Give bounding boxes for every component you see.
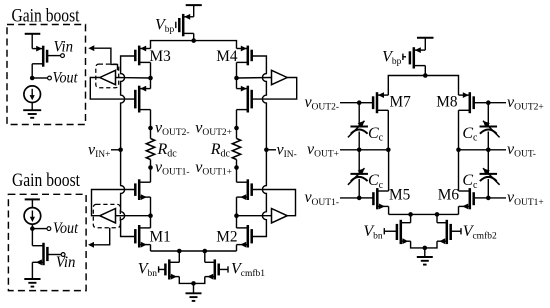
label Vbp (stage 2) xyxy=(403,56,406,58)
label vOUT+ xyxy=(340,149,359,151)
wire cap to vOUT1- node xyxy=(358,179,360,198)
wire cap column upper left xyxy=(358,103,360,127)
ground (bottom box) xyxy=(24,278,40,280)
label vOUT- xyxy=(488,149,506,151)
node tail left (stage 2) xyxy=(408,212,413,217)
ground (top box) xyxy=(23,109,41,111)
node vOUT1- (stage1) xyxy=(148,165,153,170)
wire cap column lower left xyxy=(358,150,360,174)
wire A3 input from node C xyxy=(116,215,151,217)
wire cap to vOUT- node xyxy=(487,132,489,150)
label Vbp (stage 1) xyxy=(174,24,176,26)
node tail right (stage 1) xyxy=(203,249,208,254)
wire current source to Vout node (bottom box) xyxy=(31,224,33,228)
wire VDD rail (stage 1) xyxy=(151,41,237,49)
wire cascode PMOS drain to vOUT2- node xyxy=(150,110,152,128)
transistor tail NMOS Vbn (stage 2) xyxy=(400,220,403,244)
wire source to ground (bottom box) xyxy=(31,262,33,279)
transistor M1 xyxy=(138,225,141,248)
node tail left (stage 1) xyxy=(177,249,182,254)
wire cascode source to node D xyxy=(236,197,238,216)
svg-text:M7: M7 xyxy=(390,94,412,111)
dashed box Gain boost (bottom) xyxy=(8,194,86,290)
wire M1 drain to node C xyxy=(150,216,152,228)
wire Vout node to NMOS drain (bottom box) xyxy=(31,229,33,246)
wire Vbn drain (stage 2) xyxy=(410,214,412,222)
transistor M5 xyxy=(376,188,379,209)
wire vOUT- node to output column xyxy=(459,149,489,151)
wire cascode drain to vOUT1+ node xyxy=(236,168,238,183)
wire M5 drain up to vOUT+ column xyxy=(388,150,390,191)
terminal Vin (top box) xyxy=(47,55,61,57)
node Vout (bottom box) xyxy=(30,226,35,231)
wire Vcmfb1 source to ground node xyxy=(194,277,205,284)
wire M7 drain down to vOUT+ column xyxy=(387,110,389,150)
node D (cascode source / M2 drain) xyxy=(234,213,239,218)
wire vOUT+ node to output column xyxy=(359,149,388,151)
transistor tail NMOS Vcmfb1 xyxy=(214,259,217,279)
node rail center (stage 1) xyxy=(191,38,196,43)
transistor M6 xyxy=(469,188,472,209)
wire VDD rail (stage 2) xyxy=(388,76,458,96)
wire M4 drain to node B xyxy=(236,62,238,78)
label vIN+ xyxy=(111,149,121,151)
label Vcmfb2 xyxy=(451,230,461,232)
terminal Vin (bottom box) xyxy=(47,254,61,256)
wire Vbp drain to rail (stage 2) xyxy=(424,66,426,76)
transistor cascode NMOS left xyxy=(138,179,141,200)
label vIN- xyxy=(266,149,276,151)
wire cap column lower right xyxy=(487,150,489,174)
capacitor Cc (left upper) xyxy=(350,126,368,128)
label Vbn (stage 2) xyxy=(384,230,397,232)
current source (top box) xyxy=(24,86,41,103)
transistor M4 xyxy=(247,46,250,66)
capacitor Cc (right upper) xyxy=(480,126,498,128)
op-amp gain-boost A3 (left bottom, in dashed box) xyxy=(100,209,116,223)
wire cap to vOUT+ node xyxy=(358,132,360,150)
label Vbn (stage 1) xyxy=(159,268,166,270)
node vOUT1- (stage 2 input) xyxy=(357,196,362,201)
svg-text:Vout: Vout xyxy=(53,70,79,87)
current source (bottom box) xyxy=(24,208,41,225)
wire Vcmfb2 drain xyxy=(436,214,438,222)
wire cascode NMOS drain to vOUT1- node xyxy=(150,168,152,183)
node vOUT2+ (stage 2 input) xyxy=(486,100,491,105)
wire M6 gate to vOUT1+ node xyxy=(474,197,489,199)
wire cap to vOUT1+ node xyxy=(487,179,489,198)
power rail VDD symbol (stage 2) xyxy=(417,37,434,39)
node vOUT2- (stage 2 input) xyxy=(357,100,362,105)
ground (stage 2) xyxy=(424,248,426,257)
transistor tail NMOS Vcmfb2 xyxy=(446,220,449,244)
terminal Vout (bottom box) xyxy=(32,228,47,230)
wire Vbn source to ground node (stage 2) xyxy=(411,241,425,248)
power rail VDD symbol (bottom box) xyxy=(25,198,40,200)
label vOUT1+ (stage 2) xyxy=(488,197,506,199)
wire A2 input from node B xyxy=(237,77,272,80)
node tail center (stage 1) xyxy=(191,281,196,286)
wire cascode NMOS source to node C xyxy=(150,197,152,216)
svg-text:M3: M3 xyxy=(150,48,172,65)
node vIN+ xyxy=(118,148,123,153)
wire M1 source to tail rail xyxy=(150,245,152,251)
op-amp gain-boost A4 (right bottom) xyxy=(272,209,288,223)
wire Vcmfb2 source to ground node xyxy=(425,241,437,248)
op-amp gain-boost A2 (right top) xyxy=(272,70,288,84)
transistor M3 xyxy=(138,46,141,66)
wire A4 output wrap to cascode gate xyxy=(252,190,296,216)
transistor PMOS (top box) xyxy=(42,46,45,67)
node Vout (top box) xyxy=(30,76,35,81)
node vOUT- xyxy=(486,148,491,153)
svg-text:M1: M1 xyxy=(150,229,171,246)
power rail VDD symbol (top box) xyxy=(25,33,41,35)
resistor Rdc left xyxy=(150,128,152,139)
resistor Rdc right xyxy=(236,128,238,139)
wire Vcmfb1 drain xyxy=(204,251,206,262)
svg-text:M5: M5 xyxy=(389,187,411,204)
node vOUT+ column junction xyxy=(386,148,391,153)
svg-text:M4: M4 xyxy=(216,48,238,65)
wire tail rail (stage 1) xyxy=(151,250,237,252)
svg-text:Gain boost: Gain boost xyxy=(12,171,81,191)
transistor M2 xyxy=(247,225,250,248)
wire Vbn drain xyxy=(178,251,180,262)
wire vIN+ gate line (M3 gate to M1 gate) xyxy=(121,56,136,237)
node vOUT1+ (stage 2 input) xyxy=(486,196,491,201)
label Vcmfb1 xyxy=(219,268,228,270)
node B (M4 drain / cascode source, right) xyxy=(234,76,239,81)
svg-text:Vin: Vin xyxy=(56,254,76,271)
svg-text:Vout: Vout xyxy=(53,220,79,237)
wire A1 output wrap to cascode gate xyxy=(90,78,135,100)
node tail right (stage 2) xyxy=(435,212,440,217)
node tail center (stage 2) xyxy=(423,246,428,251)
transistor M7 xyxy=(376,92,379,113)
wire M6 source to tail rail (stage 2) xyxy=(458,206,460,214)
node vOUT+ xyxy=(357,148,362,153)
wire vIN- gate line (M4 gate to M2 gate) xyxy=(252,56,267,237)
wire M3 drain to node A xyxy=(150,62,152,78)
wire A3 output wrap to cascode gate xyxy=(92,190,136,216)
transistor NMOS (bottom box) xyxy=(42,243,45,265)
transistor cascode NMOS right xyxy=(247,179,250,200)
transistor M8 xyxy=(469,92,472,113)
node vOUT- column junction xyxy=(456,148,461,153)
wire M7 gate to vOUT2- node xyxy=(359,102,373,104)
transistor Vbp tail PMOS (stage 1) xyxy=(182,14,185,36)
transistor Vbp tail PMOS (stage 2) xyxy=(413,47,416,68)
op-amp gain-boost A1 (left top, in dashed box) xyxy=(100,70,116,84)
capacitor Cc (left lower) xyxy=(350,173,368,175)
wire M6 drain up to vOUT- column xyxy=(458,150,460,191)
node rail center (stage 2) xyxy=(423,73,428,78)
node A (M3 drain / cascode source, left) xyxy=(148,76,153,81)
node vIN- xyxy=(264,148,269,153)
wire tail rail (stage 2) xyxy=(389,213,459,215)
transistor cascode PMOS right xyxy=(247,86,250,113)
node vOUT2- xyxy=(148,126,153,131)
ground (stage 1) xyxy=(193,283,195,293)
label vOUT2- (stage 2) xyxy=(340,102,359,104)
capacitor Cc (right lower) xyxy=(480,173,498,175)
wire cap column upper right xyxy=(487,103,489,127)
arrow reference to Gain boost box (bottom) xyxy=(94,228,110,245)
label vOUT1- (stage 2) xyxy=(340,197,359,199)
wire M2 source to tail rail xyxy=(236,245,238,251)
transistor cascode PMOS left xyxy=(138,86,141,113)
arrow reference to Gain boost box (top) xyxy=(94,48,117,70)
label vOUT2+ (stage 2) xyxy=(488,102,506,104)
svg-text:M2: M2 xyxy=(216,229,237,246)
wire M5 gate to vOUT1- node xyxy=(359,197,373,199)
transistor tail NMOS Vbn (stage 1) xyxy=(168,259,171,279)
node vOUT2+ xyxy=(234,126,239,131)
dashed box Gain boost (top) xyxy=(7,25,86,125)
wire current source to ground (top box) xyxy=(31,103,33,111)
wire M2 drain to node D xyxy=(236,216,238,228)
wire A2 output wrap to cascode gate xyxy=(252,78,297,100)
wire M5 source to tail rail (stage 2) xyxy=(388,206,390,214)
wire M8 gate to vOUT2+ node xyxy=(474,102,489,104)
wire cascode source to node B xyxy=(236,78,238,89)
power rail VDD symbol (stage 1) xyxy=(186,4,202,6)
node C (cascode source / M1 drain) xyxy=(148,213,153,218)
wire cascode drain to vOUT2+ node xyxy=(236,110,238,128)
svg-text:M6: M6 xyxy=(438,187,460,204)
wire Vbn source to ground node xyxy=(179,277,193,284)
wire cascode PMOS source to node A xyxy=(150,78,152,89)
svg-text:Gain boost: Gain boost xyxy=(12,7,81,27)
wire Vbp drain to rail xyxy=(193,33,195,40)
wire drain to Vout node (top box) xyxy=(31,64,33,78)
node vOUT1+ (stage1) xyxy=(234,165,239,170)
terminal Vout (top box) xyxy=(32,77,48,79)
wire M8 drain down to vOUT- column xyxy=(458,110,460,150)
svg-text:M8: M8 xyxy=(436,94,458,111)
wire A4 input from node D xyxy=(237,215,272,217)
wire A1 input from node A xyxy=(116,77,151,80)
svg-text:Vin: Vin xyxy=(54,39,74,56)
